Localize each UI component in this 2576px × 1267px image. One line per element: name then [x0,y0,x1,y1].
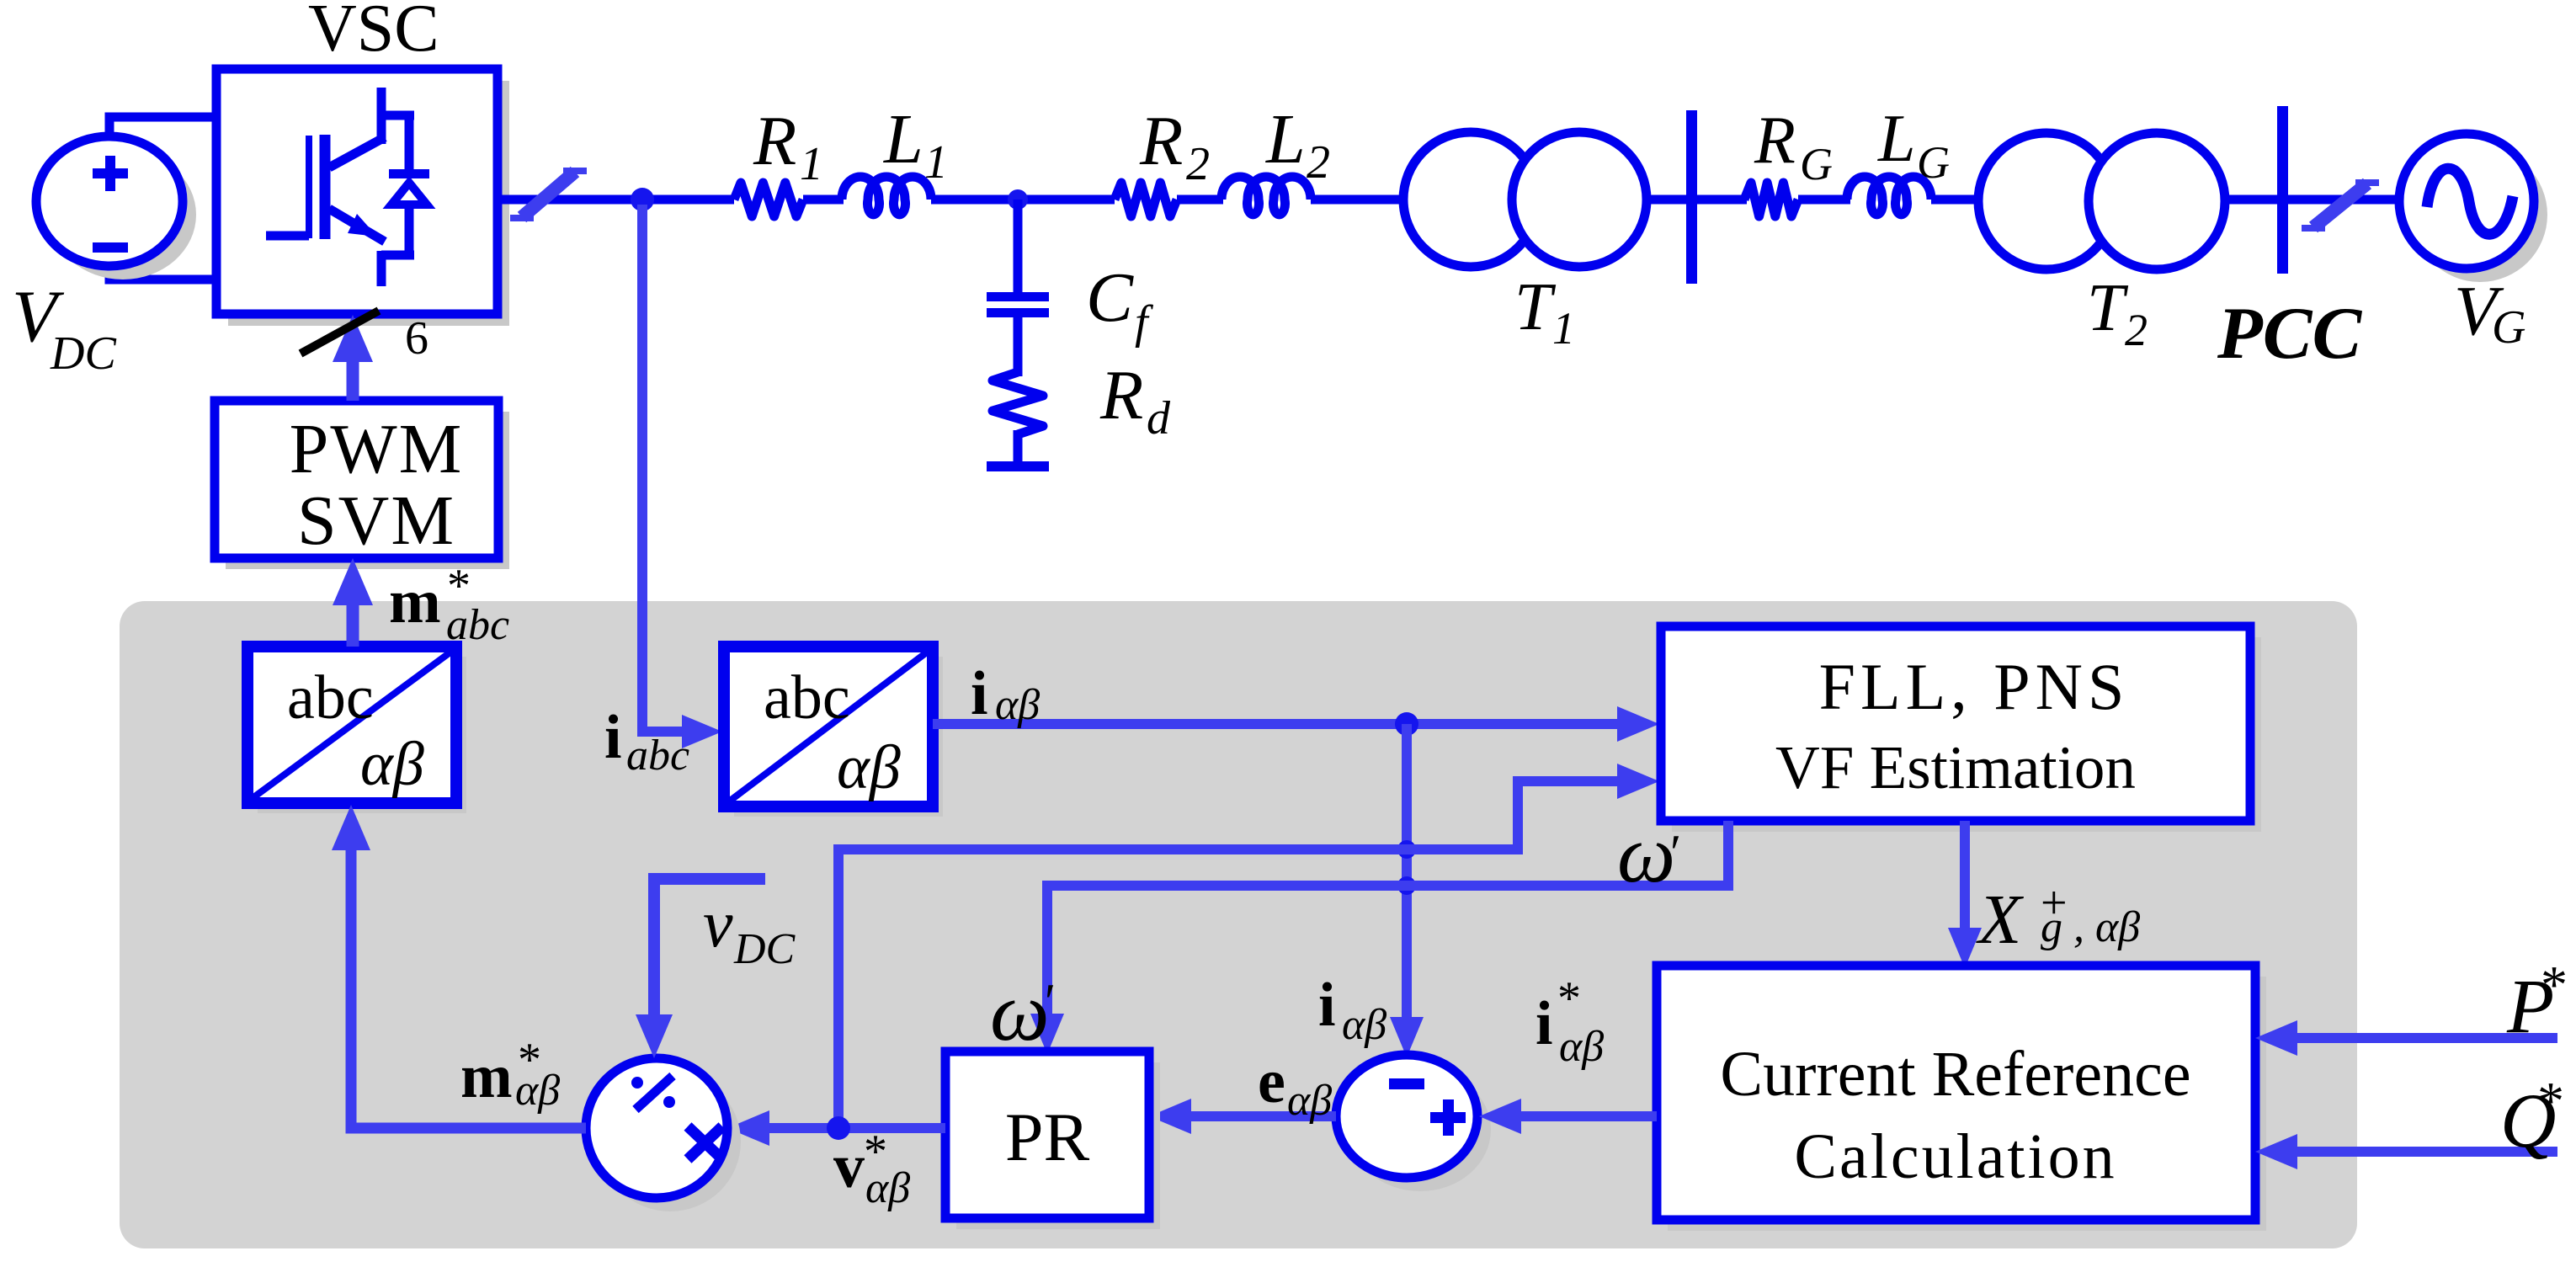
svg-text:ω: ω [990,965,1050,1058]
svg-text:2: 2 [1186,138,1210,190]
svg-text:i: i [971,659,988,728]
svg-text:1: 1 [800,138,823,190]
svg-text:d: d [1147,392,1171,445]
svg-text:e: e [1258,1047,1285,1116]
svg-text:αβ: αβ [1342,1001,1386,1049]
svg-text:*: * [447,560,471,612]
svg-text:R: R [1099,356,1143,434]
svg-text:+: + [2041,877,2068,929]
svg-text:FLL, PNS: FLL, PNS [1819,650,2130,723]
svg-text:SVM: SVM [297,482,455,560]
svg-text:G: G [2492,301,2525,354]
svg-text:X: X [1976,881,2025,959]
svg-text:v: v [703,887,733,961]
svg-text:2: 2 [1307,136,1330,189]
svg-text:abc: abc [626,732,689,780]
svg-text:αβ: αβ [1287,1077,1332,1125]
svg-text:T: T [1514,270,1557,344]
svg-text:R: R [1139,102,1183,180]
svg-text:αβ: αβ [995,681,1040,729]
svg-text:Calculation: Calculation [1794,1121,2116,1192]
svg-text:abc: abc [764,663,850,732]
svg-text:*: * [1557,972,1581,1025]
svg-text:αβ: αβ [360,730,424,799]
svg-text:αβ: αβ [837,733,901,802]
svg-text:PCC: PCC [2217,293,2362,375]
svg-text:1: 1 [1552,303,1575,354]
svg-text:6: 6 [405,312,428,365]
svg-text:L: L [883,100,923,178]
svg-text:i: i [1535,989,1553,1058]
svg-text:VSC: VSC [308,0,439,66]
svg-text:*: * [2541,955,2568,1014]
svg-text:αβ: αβ [1559,1023,1604,1071]
svg-text:′: ′ [1670,825,1681,881]
svg-text:ω: ω [1617,809,1675,900]
svg-text:m: m [460,1042,513,1111]
svg-text:*: * [518,1034,541,1086]
svg-text:′: ′ [1045,974,1056,1030]
svg-text:i: i [1318,971,1336,1040]
svg-text:DC: DC [733,925,796,973]
svg-text:VF Estimation: VF Estimation [1775,733,2136,801]
svg-text:G: G [1917,137,1950,188]
svg-text:abc: abc [287,663,374,732]
svg-text:m: m [389,567,441,636]
svg-text:*: * [2537,1071,2564,1131]
svg-text:i: i [604,703,622,772]
svg-text:R: R [753,102,796,180]
svg-text:2: 2 [2125,305,2148,355]
svg-text:*: * [864,1126,887,1178]
svg-text:1: 1 [924,136,948,189]
svg-text:R: R [1754,104,1796,178]
svg-text:PWM: PWM [290,410,464,488]
svg-text:v: v [833,1132,865,1201]
svg-text:T: T [2087,271,2129,345]
svg-text:L: L [1265,100,1306,178]
svg-text:G: G [1800,139,1833,189]
svg-text:PR: PR [1005,1099,1090,1175]
svg-text:C: C [1086,258,1134,337]
svg-text:Current Reference: Current Reference [1720,1039,2190,1110]
svg-text:L: L [1877,102,1916,176]
svg-text:DC: DC [50,327,116,380]
